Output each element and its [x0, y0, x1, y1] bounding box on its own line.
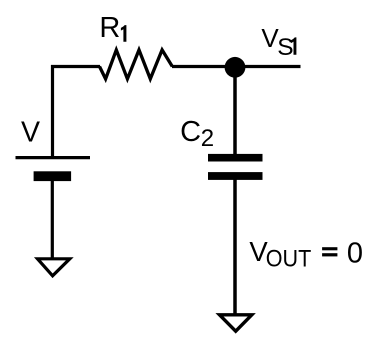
- battery V positive plate: [16, 156, 91, 159]
- wire node to capacitor: [233, 67, 237, 155]
- node VS1 junction dot: [225, 57, 246, 78]
- wire left vertical: [51, 65, 54, 157]
- capacitor C2 bottom plate: [208, 172, 263, 180]
- svg-text:V: V: [21, 116, 40, 148]
- svg-text:2: 2: [201, 125, 214, 152]
- svg-text:C: C: [180, 116, 201, 148]
- wire capacitor to ground: [233, 179, 237, 314]
- wire top horizontal left segment: [51, 65, 100, 68]
- capacitor C2 top plate: [208, 154, 263, 162]
- svg-text:OUT: OUT: [266, 246, 312, 272]
- ground left: [38, 259, 70, 276]
- ground bottom: [220, 315, 252, 331]
- resistor R1: [100, 50, 173, 79]
- svg-text:R: R: [99, 12, 120, 44]
- svg-text:0: 0: [347, 237, 363, 269]
- battery V negative plate: [34, 171, 72, 181]
- wire battery to ground: [51, 180, 54, 258]
- svg-text:S: S: [277, 34, 293, 61]
- wire top horizontal right segment: [172, 65, 301, 68]
